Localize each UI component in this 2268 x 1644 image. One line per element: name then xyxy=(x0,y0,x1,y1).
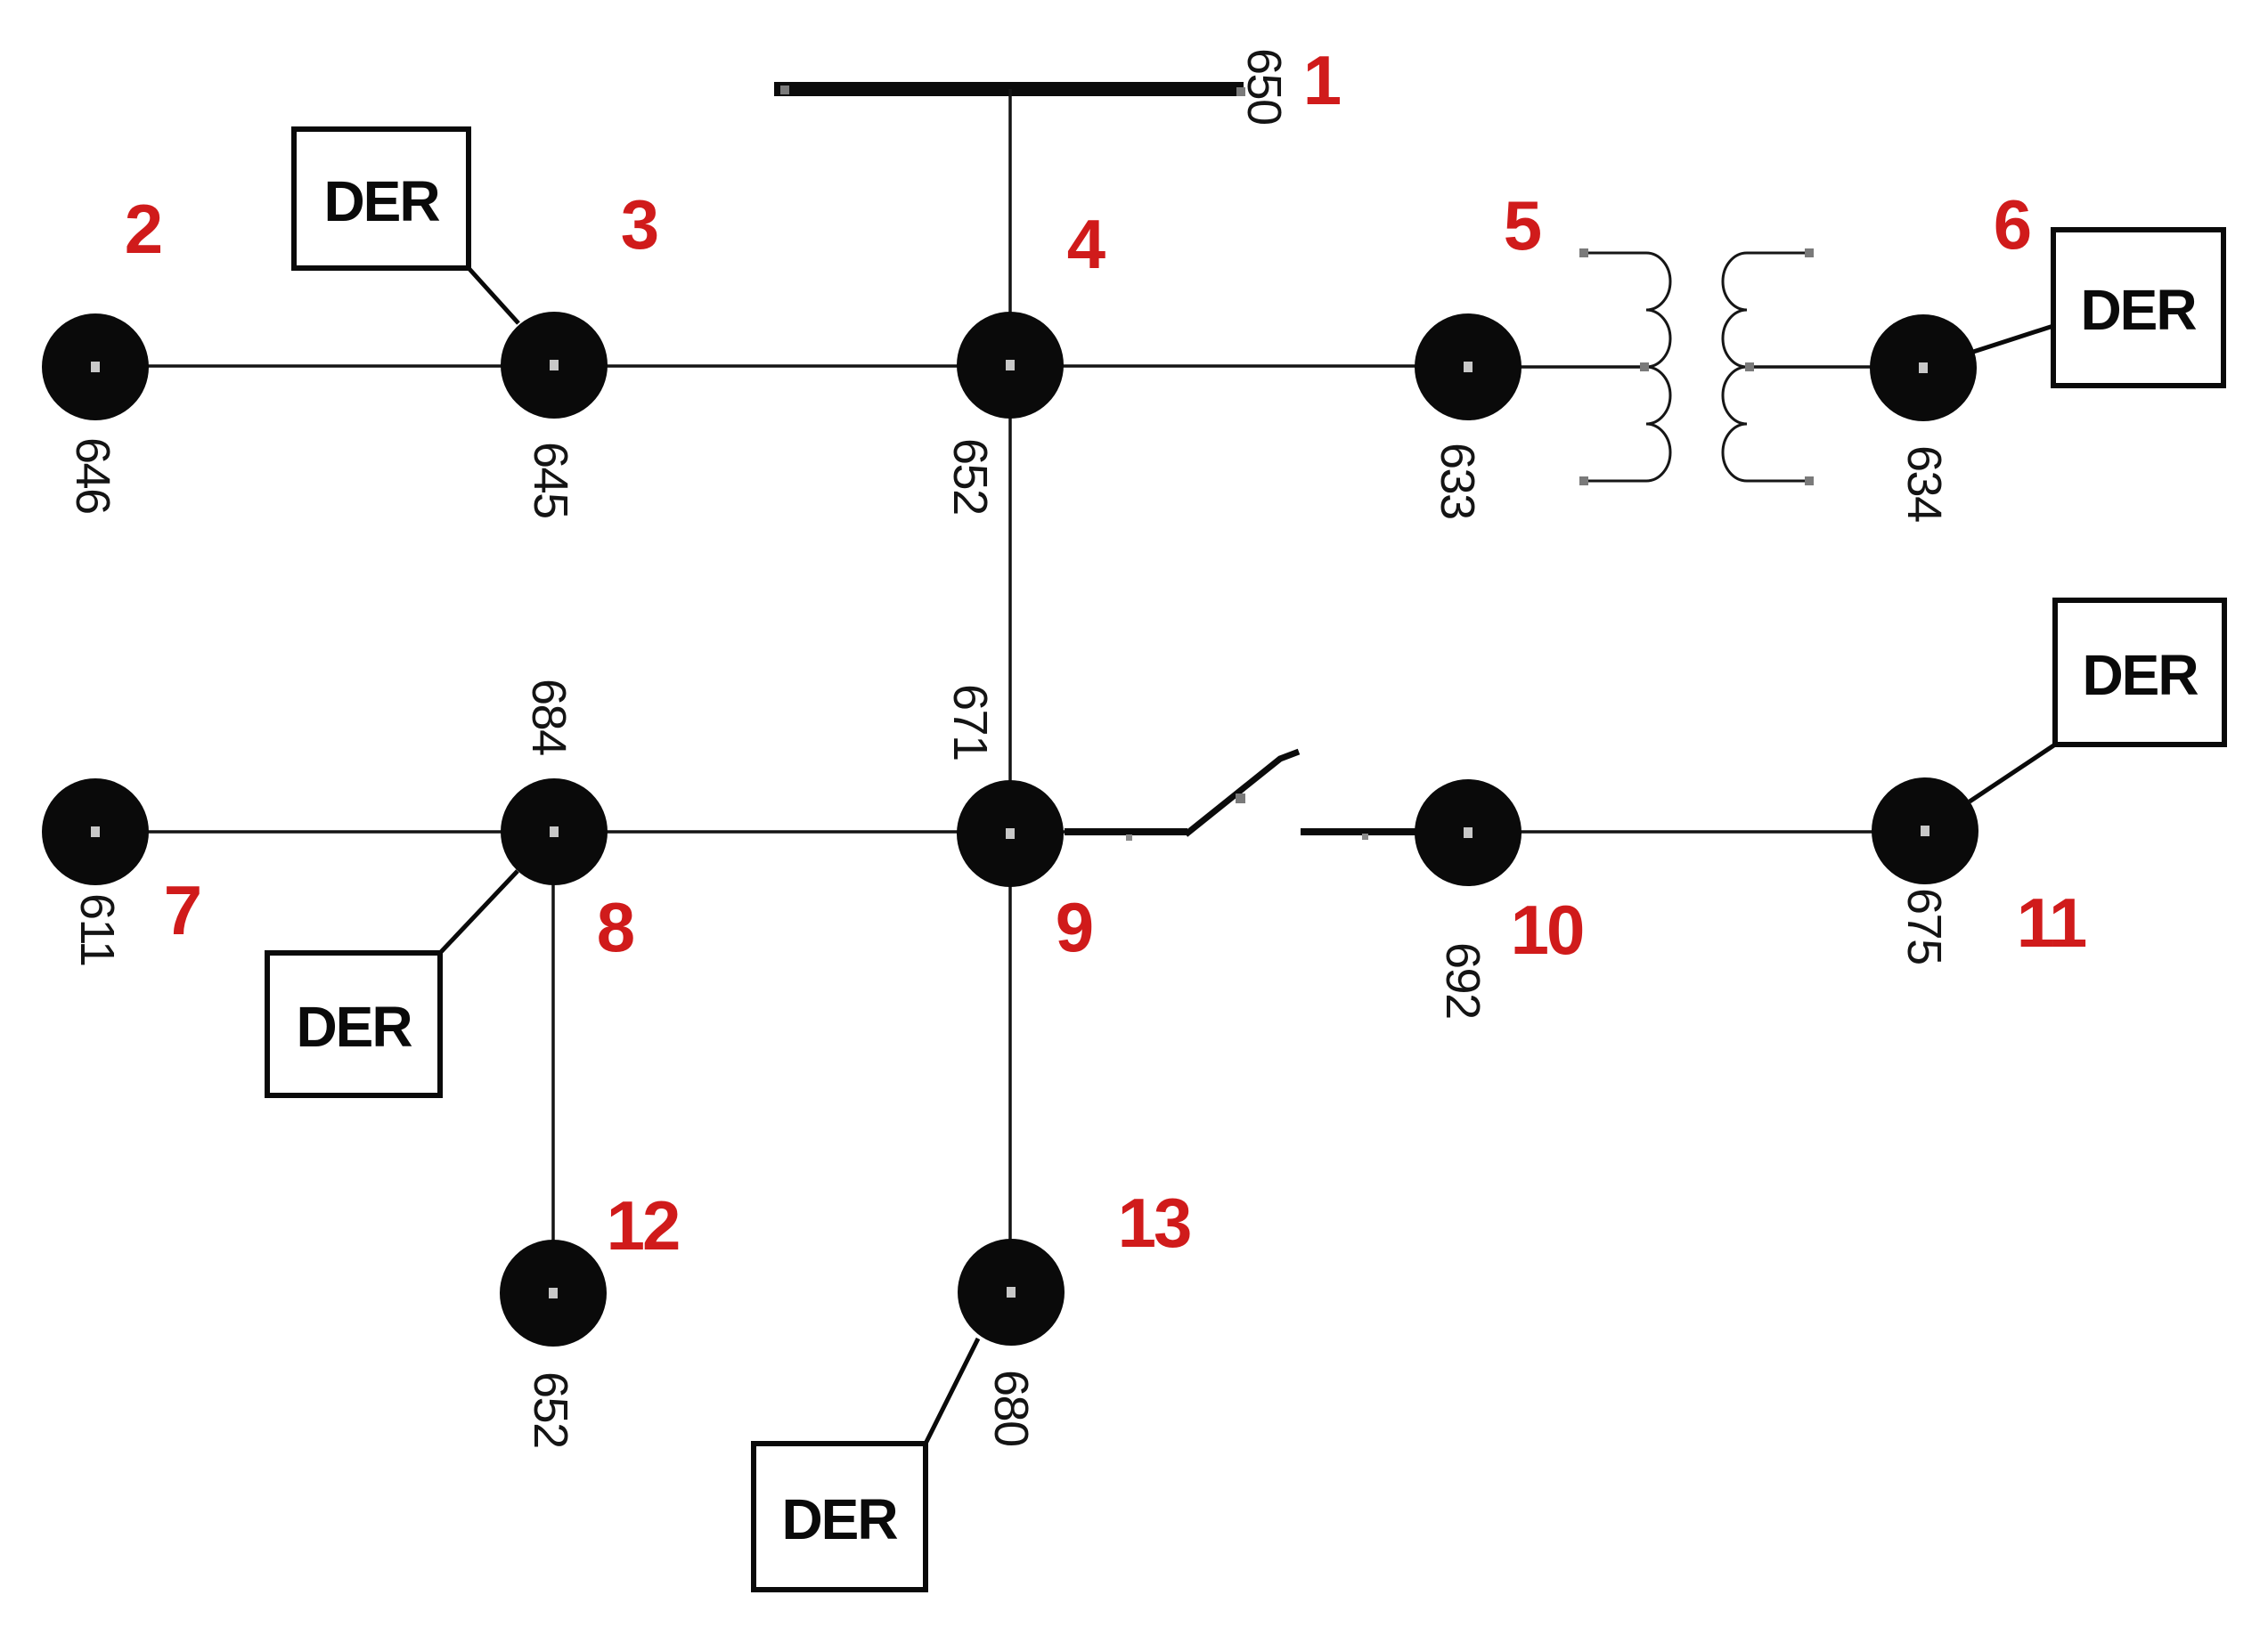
transformer T1 primary winding xyxy=(1584,253,1670,481)
node 645 xyxy=(501,312,608,419)
svg-text:10: 10 xyxy=(1511,891,1583,969)
wire row2 611-684-671 xyxy=(95,830,1065,834)
svg-text:646: 646 xyxy=(66,437,119,514)
node 680 xyxy=(958,1239,1065,1346)
svg-text:650: 650 xyxy=(1237,48,1291,125)
node 634 xyxy=(1870,314,1977,421)
wire transformer to 634 xyxy=(1747,365,1923,369)
handle xfmr primary mid xyxy=(1640,362,1649,371)
handle xfmr secondary bottom xyxy=(1805,476,1814,485)
node 646 xyxy=(42,313,149,420)
svg-text:8: 8 xyxy=(597,888,633,966)
DER link to 680 xyxy=(926,1339,978,1444)
wire 650 to 652 (branch 1) xyxy=(1008,89,1012,365)
handle switch left xyxy=(1126,834,1132,841)
node 633 xyxy=(1415,313,1522,420)
svg-text:671: 671 xyxy=(943,684,997,761)
svg-text:7: 7 xyxy=(164,871,200,949)
svg-text:DER: DER xyxy=(781,1487,897,1551)
wire 652 to 671 (branch 9 feeder) xyxy=(1008,365,1012,834)
wire row1 646-645-652-633 xyxy=(95,364,1468,368)
handle xfmr primary bottom xyxy=(1579,476,1588,485)
svg-text:652: 652 xyxy=(524,1371,577,1448)
svg-text:1: 1 xyxy=(1303,41,1341,119)
svg-text:680: 680 xyxy=(984,1370,1038,1446)
svg-text:675: 675 xyxy=(1897,888,1951,964)
node 611 xyxy=(42,778,149,885)
transformer T1 secondary winding xyxy=(1723,253,1809,481)
DER link to 645 xyxy=(469,268,518,323)
DER box for node 675 xyxy=(2055,600,2224,745)
DER link to 634 xyxy=(1970,326,2053,353)
DER box for node 634 xyxy=(2053,230,2223,386)
svg-text:652: 652 xyxy=(943,438,997,515)
switch 671-692 left stub xyxy=(1065,828,1187,835)
node 671 xyxy=(957,780,1064,887)
svg-text:4: 4 xyxy=(1067,205,1105,283)
svg-text:DER: DER xyxy=(2080,278,2196,342)
svg-text:645: 645 xyxy=(524,442,577,518)
node 692 xyxy=(1415,779,1522,886)
switch right stub xyxy=(1301,828,1418,835)
svg-text:9: 9 xyxy=(1056,888,1092,966)
svg-text:633: 633 xyxy=(1431,443,1484,519)
handle bus left xyxy=(780,85,789,94)
bus 650 (substation bar) xyxy=(774,82,1244,96)
svg-text:684: 684 xyxy=(522,679,575,755)
svg-text:11: 11 xyxy=(2017,883,2086,962)
DER box for node 684 xyxy=(267,953,440,1095)
svg-text:6: 6 xyxy=(1994,185,2030,264)
svg-text:692: 692 xyxy=(1436,942,1489,1019)
switch blade xyxy=(1186,752,1299,834)
DER link to 684 xyxy=(440,871,518,953)
svg-text:611: 611 xyxy=(70,893,124,966)
svg-text:5: 5 xyxy=(1504,186,1541,265)
DER box for node 680 xyxy=(754,1444,926,1590)
svg-text:3: 3 xyxy=(621,185,657,264)
svg-text:DER: DER xyxy=(296,995,412,1059)
svg-text:2: 2 xyxy=(125,190,161,268)
wire 692 to 675 xyxy=(1468,830,1925,834)
svg-text:634: 634 xyxy=(1897,445,1951,522)
handle xfmr secondary mid xyxy=(1745,362,1754,371)
node 652 upper xyxy=(957,312,1064,419)
wire 671 to 680 xyxy=(1008,834,1012,1292)
svg-text:12: 12 xyxy=(607,1186,679,1265)
handle switch right xyxy=(1362,834,1368,840)
handle bus right xyxy=(1236,87,1245,96)
handle switch blade xyxy=(1236,794,1245,803)
handle xfmr primary top xyxy=(1579,248,1588,257)
svg-text:DER: DER xyxy=(2082,643,2198,707)
wire 633 to transformer xyxy=(1468,365,1646,369)
node 652 lower xyxy=(500,1240,607,1347)
handle xfmr secondary top xyxy=(1805,248,1814,257)
wire 684 to 652 lower xyxy=(551,832,555,1293)
svg-text:DER: DER xyxy=(323,169,439,233)
svg-text:13: 13 xyxy=(1118,1184,1190,1262)
DER link to 675 xyxy=(1970,745,2055,802)
node 675 xyxy=(1872,777,1978,884)
DER box for node 645 xyxy=(294,129,469,268)
node 684 xyxy=(501,778,608,885)
